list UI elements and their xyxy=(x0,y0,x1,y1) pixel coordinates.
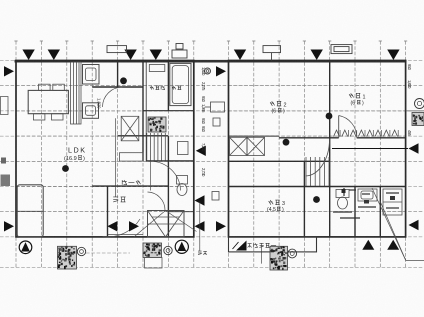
top legend boxes xyxy=(107,44,352,61)
balcony 2F xyxy=(229,237,317,252)
circled up-arrows xyxy=(19,240,188,253)
module grid xyxy=(0,41,424,268)
internal walls 2F xyxy=(229,61,424,237)
column dots xyxy=(62,77,332,203)
section markers xyxy=(4,50,419,251)
2F fixtures xyxy=(230,116,424,261)
outer walls xyxy=(15,61,407,237)
room labels xyxy=(64,86,366,264)
gap column marks xyxy=(205,102,225,200)
dimension texts xyxy=(201,64,412,177)
1F fixtures xyxy=(17,62,196,237)
internal walls 1F xyxy=(92,61,194,237)
small circle marks xyxy=(77,68,424,258)
outside left fixtures xyxy=(1,97,11,187)
stamp blocks xyxy=(58,113,424,271)
